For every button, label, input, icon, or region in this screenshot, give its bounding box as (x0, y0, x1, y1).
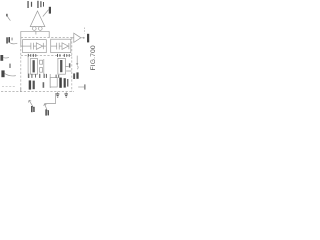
label 746 (49, 7, 51, 14)
ground stub G2 (65, 92, 67, 94)
label 720 (top text) (37, 1, 44, 8)
lead 706 (4, 73, 15, 76)
diode D2 (62, 43, 69, 50)
faint dashed stub bottom-left (2, 86, 16, 88)
small mark left (9, 64, 10, 68)
op-amp U1 (triangle up) (30, 11, 45, 27)
tick right bottom (78, 86, 84, 88)
dashed lead above output (83, 28, 85, 34)
block box 726 (51, 39, 71, 52)
label 704 left lower (0, 55, 3, 61)
block box 730 (30, 59, 37, 75)
lead line to label 746 (43, 10, 49, 17)
dashed enclosure 712 (left edge) (20, 38, 22, 92)
wire bus under balls (21, 30, 49, 32)
lead 704 (3, 56, 9, 59)
dashed enclosure 712 (right edge) (71, 38, 73, 92)
capacitor C2 (57, 43, 60, 50)
wire D1 out (43, 45, 46, 47)
wire from divider right (76, 56, 78, 65)
wire stub center (35, 31, 37, 34)
label 702 left (6, 37, 12, 43)
corner tick (20, 88, 22, 92)
text cluster lower-left (29, 80, 44, 89)
tiny text under box3 (56, 75, 60, 78)
wire right of box 730 (43, 59, 45, 74)
divider tick labels right (57, 54, 70, 57)
ground symbol G1 (56, 93, 59, 97)
wire into C1 (21, 45, 31, 47)
svg-text:FIG.700: FIG.700 (90, 45, 97, 70)
wire to amp U2 (71, 37, 74, 39)
component tick right (65, 66, 78, 71)
box 730 inner text (33, 60, 35, 72)
ground stub G1 (57, 92, 59, 94)
dashed enclosure 712 (top edge) (21, 37, 72, 39)
wire right drop (48, 31, 50, 37)
wire L to label 700 (45, 93, 56, 104)
connector bracket a (40, 60, 43, 64)
block box 732 (58, 58, 66, 74)
dashed enclosure 712 (bottom edge) (1, 91, 74, 93)
label right extra (76, 72, 78, 78)
block box 724 (23, 40, 47, 53)
lower small box right (50, 77, 57, 87)
capacitor C1 (31, 43, 34, 50)
wire C1 to D1 (33, 45, 36, 47)
label 722 (73, 73, 75, 79)
wire into C2 (51, 45, 57, 47)
pointer squiggle 1 (28, 100, 33, 108)
op-amp U2 (triangle right) (74, 33, 81, 42)
row of tiny labels lower-left (28, 74, 47, 78)
wire left drop (20, 31, 22, 46)
connector bracket b (40, 68, 43, 73)
label under squiggle 1 (31, 106, 35, 112)
output arrow (81, 37, 85, 39)
label under squiggle 2 (45, 109, 49, 115)
text cluster lower-right (59, 78, 68, 88)
wire C2 to D2 (59, 45, 62, 47)
box 732 inner text (60, 60, 62, 72)
divider tick labels left (28, 54, 36, 57)
transducer ball B1 (32, 27, 36, 31)
diode D1 (36, 43, 43, 50)
label 748 (87, 34, 89, 43)
label 706 left mid (1, 70, 4, 77)
lead squiggle 702 (9, 42, 17, 44)
ground symbol G2 (65, 93, 68, 97)
wire left of box (49, 74, 51, 88)
tiny squiggle top left (7, 15, 11, 21)
transducer ball B2 (38, 27, 42, 31)
wire drop left lower (27, 56, 29, 78)
small bar (69, 63, 71, 67)
label 718 (top text) (27, 1, 32, 8)
pointer squiggle 2 (44, 104, 47, 111)
dashed divider (21, 55, 72, 57)
